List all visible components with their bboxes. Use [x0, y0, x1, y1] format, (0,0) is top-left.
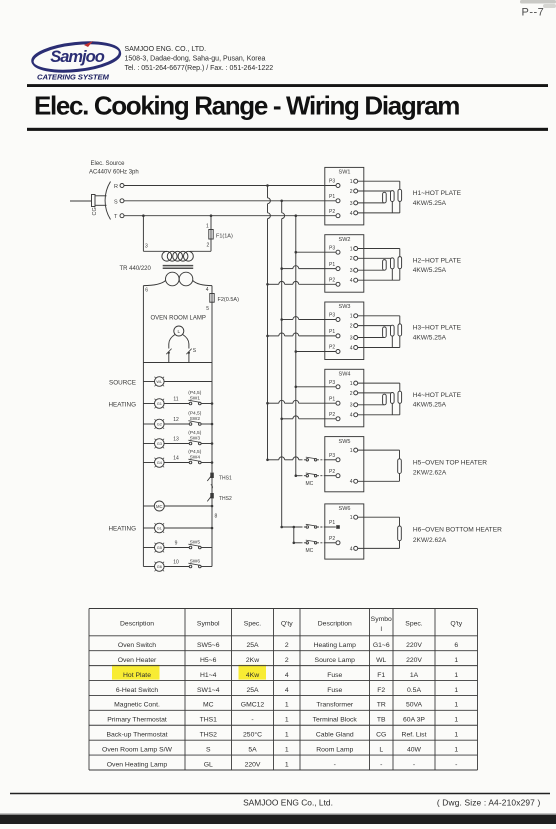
oven top heater H5: [358, 449, 400, 451]
svg-text:P2: P2: [329, 469, 335, 475]
svg-text:1: 1: [454, 687, 458, 694]
svg-text:THS2: THS2: [219, 496, 232, 502]
feed SW5 P2 with MC contact: [295, 474, 298, 477]
wire T: [124, 215, 336, 217]
svg-text:1: 1: [454, 672, 458, 679]
lamp G4 row: [143, 462, 154, 464]
svg-text:Ref. List: Ref. List: [402, 732, 427, 739]
svg-text:-: -: [455, 761, 457, 768]
svg-text:F2(0.5A): F2(0.5A): [218, 297, 240, 303]
svg-text:CG: CG: [92, 207, 98, 215]
svg-text:CG: CG: [376, 732, 386, 739]
svg-text:2KW/2.62A: 2KW/2.62A: [413, 470, 447, 477]
thermostat THS1: [210, 473, 214, 478]
svg-text:G1: G1: [157, 401, 162, 406]
svg-text:1A: 1A: [410, 672, 419, 679]
svg-text:3: 3: [145, 244, 148, 250]
svg-text:GL: GL: [157, 526, 163, 531]
svg-text:4: 4: [350, 413, 353, 419]
svg-text:Q'ty: Q'ty: [281, 621, 293, 628]
svg-text:3: 3: [350, 403, 353, 409]
svg-text:SW2: SW2: [339, 237, 351, 243]
svg-text:G2: G2: [157, 422, 162, 427]
svg-text:P3: P3: [329, 245, 335, 251]
svg-text:HEATING: HEATING: [108, 401, 136, 408]
svg-text:R: R: [114, 184, 118, 190]
table grid: [88, 609, 90, 770]
cable gland CG: [70, 200, 92, 202]
svg-text:Fuse: Fuse: [327, 687, 342, 694]
feed SW3 P1: [266, 335, 269, 338]
feed SW2 P1: [280, 267, 283, 270]
feed SW4 P1: [266, 402, 269, 405]
svg-text:G4: G4: [157, 460, 163, 465]
svg-text:SAMJOO ENG. CO., LTD.: SAMJOO ENG. CO., LTD.: [125, 46, 207, 53]
wire R: [124, 185, 336, 187]
6-heat switch SW2: [325, 235, 364, 293]
svg-text:4: 4: [206, 287, 209, 293]
svg-text:SW1: SW1: [339, 170, 351, 176]
table highlight Hot Plate: [112, 665, 160, 680]
svg-text:THS1: THS1: [200, 717, 218, 724]
svg-text:3: 3: [350, 268, 353, 274]
svg-text:Description: Description: [120, 621, 154, 628]
svg-text:SW5~6: SW5~6: [197, 642, 220, 649]
svg-text:G3: G3: [157, 441, 162, 446]
svg-text:SW4: SW4: [339, 372, 351, 378]
lamp GL row: [143, 527, 154, 529]
svg-text:1: 1: [350, 515, 353, 521]
heater H2 element C: [398, 257, 402, 269]
svg-text:Oven Room Lamp S/W: Oven Room Lamp S/W: [102, 746, 172, 753]
svg-text:MC: MC: [306, 481, 314, 487]
svg-text:13: 13: [173, 436, 179, 442]
svg-text:OVEN ROOM LAMP: OVEN ROOM LAMP: [151, 316, 206, 322]
svg-text:Symbo: Symbo: [371, 616, 392, 623]
svg-text:Description: Description: [318, 621, 352, 628]
svg-text:SW1~4: SW1~4: [197, 687, 220, 694]
lamp bottom wire: [143, 362, 212, 364]
heater H4 element B: [391, 393, 395, 404]
svg-text:1: 1: [454, 732, 458, 739]
svg-text:MC: MC: [306, 548, 314, 554]
feed SW6 P2 with MC contact: [293, 542, 296, 545]
hot plate heater H3 wires: [358, 315, 400, 317]
svg-text:6-Heat Switch: 6-Heat Switch: [116, 687, 159, 694]
wire T to F1: [210, 214, 213, 217]
svg-text:H5~6: H5~6: [200, 657, 217, 664]
hot plate heater H4 wires: [358, 382, 400, 384]
svg-text:P3: P3: [329, 179, 335, 185]
svg-text:1: 1: [285, 732, 289, 739]
svg-text:4KW/5.25A: 4KW/5.25A: [413, 267, 447, 274]
svg-text:250°C: 250°C: [243, 731, 262, 739]
svg-text:11: 11: [173, 396, 178, 402]
svg-text:P3: P3: [329, 313, 335, 319]
heater H3 element C: [398, 324, 402, 336]
logo red accent: [84, 41, 93, 47]
svg-text:5: 5: [206, 306, 209, 312]
svg-text:MC: MC: [203, 702, 214, 709]
svg-text:(P4,5): (P4,5): [188, 449, 201, 455]
wire F1 to primary: [210, 239, 212, 251]
heater H1 element A: [383, 192, 387, 203]
svg-text:Oven Heater: Oven Heater: [118, 657, 157, 664]
svg-text:SAMJOO ENG Co., Ltd.: SAMJOO ENG Co., Ltd.: [243, 798, 333, 808]
heater H4 element C: [398, 391, 402, 403]
svg-text:P3: P3: [329, 453, 335, 459]
svg-text:(P4,5): (P4,5): [188, 430, 201, 436]
svg-text:-: -: [251, 717, 253, 724]
bus C (T phase) vertical: [295, 214, 298, 217]
svg-text:25A: 25A: [246, 642, 259, 649]
svg-text:WL: WL: [376, 657, 386, 664]
svg-text:1: 1: [350, 448, 353, 454]
logo ellipse: [31, 38, 121, 74]
svg-text:10: 10: [173, 559, 179, 565]
svg-text:2: 2: [285, 657, 289, 664]
svg-text:P2: P2: [329, 278, 335, 284]
bus C2 stub vertical: [293, 526, 296, 529]
svg-text:-: -: [334, 761, 336, 768]
feed SW4 P3: [295, 386, 298, 389]
svg-text:Fuse: Fuse: [327, 672, 342, 679]
svg-text:40W: 40W: [407, 746, 422, 753]
svg-text:Cable Gland: Cable Gland: [316, 732, 354, 739]
room lamp L: [174, 326, 184, 336]
svg-text:F1(1A): F1(1A): [216, 234, 233, 240]
svg-text:220V: 220V: [245, 761, 261, 768]
svg-text:G6: G6: [157, 564, 162, 569]
heater H4 element A: [383, 394, 387, 405]
svg-text:( Dwg. Size : A4-210x297 ): ( Dwg. Size : A4-210x297 ): [437, 798, 541, 808]
svg-text:4KW/5.25A: 4KW/5.25A: [413, 200, 447, 207]
wire S: [124, 200, 336, 202]
svg-text:Back-up Thermostat: Back-up Thermostat: [106, 732, 167, 739]
oven switch SW5: [325, 437, 364, 492]
lamp switch S right: [186, 349, 191, 355]
svg-text:P2: P2: [329, 412, 335, 418]
hot plate heater H1 wires: [358, 180, 400, 182]
svg-text:1: 1: [350, 179, 353, 185]
svg-text:4: 4: [350, 546, 353, 552]
svg-text:1: 1: [454, 657, 458, 664]
svg-text:Elec. Cooking Range - Wiring D: Elec. Cooking Range - Wiring Diagram: [34, 91, 459, 121]
svg-text:P1: P1: [329, 262, 335, 268]
svg-text:P2: P2: [329, 209, 335, 215]
svg-text:5A: 5A: [248, 746, 257, 753]
svg-text:4: 4: [350, 211, 353, 217]
MC coil row: [143, 505, 154, 507]
svg-text:Oven Switch: Oven Switch: [118, 642, 156, 649]
heater H1 element B: [391, 191, 395, 202]
svg-text:2KW/2.62A: 2KW/2.62A: [413, 537, 447, 544]
svg-text:H2~HOT PLATE: H2~HOT PLATE: [413, 257, 462, 264]
feed SW4 P2: [280, 418, 283, 421]
svg-text:25A: 25A: [246, 687, 259, 694]
svg-text:Magnetic Cont.: Magnetic Cont.: [114, 702, 160, 709]
svg-text:1: 1: [454, 717, 458, 724]
svg-text:220V: 220V: [406, 642, 422, 649]
svg-text:2: 2: [350, 189, 353, 195]
svg-text:2Kw: 2Kw: [246, 657, 259, 664]
svg-text:1: 1: [454, 702, 458, 709]
svg-text:Spec.: Spec.: [405, 621, 422, 628]
svg-text:4KW/5.25A: 4KW/5.25A: [413, 334, 447, 341]
svg-text:Terminal Block: Terminal Block: [313, 717, 358, 724]
heater H3 element A: [383, 327, 387, 338]
svg-text:0.5A: 0.5A: [407, 687, 421, 694]
heater H3 element B: [391, 325, 395, 336]
svg-text:P1: P1: [329, 396, 335, 402]
right rail lower: [211, 478, 213, 493]
svg-text:HEATING: HEATING: [108, 525, 136, 532]
svg-text:G1~6: G1~6: [373, 642, 390, 649]
svg-text:6: 6: [145, 288, 148, 294]
svg-text:4: 4: [350, 278, 353, 284]
fuse F1: [209, 230, 213, 240]
svg-text:GL: GL: [204, 761, 213, 768]
svg-text:4: 4: [350, 479, 353, 485]
svg-text:Samjoo: Samjoo: [50, 48, 105, 66]
svg-text:WL: WL: [156, 379, 163, 384]
svg-text:1: 1: [206, 224, 209, 230]
svg-text:F1: F1: [377, 672, 385, 679]
svg-text:H1~4: H1~4: [200, 672, 217, 679]
fuse F2: [210, 294, 214, 303]
svg-text:P3: P3: [329, 380, 335, 386]
svg-text:(P4,5): (P4,5): [188, 390, 201, 396]
svg-text:Elec. Source: Elec. Source: [91, 161, 126, 167]
svg-text:60A 3P: 60A 3P: [403, 717, 425, 724]
lamp G2 row: [143, 423, 154, 425]
svg-text:Oven Heating Lamp: Oven Heating Lamp: [107, 761, 168, 768]
svg-text:Tel. : 051-264-6677(Rep.) / Fa: Tel. : 051-264-6677(Rep.) / Fax. : 051-2…: [125, 65, 274, 72]
svg-text:4: 4: [285, 672, 289, 679]
svg-text:AC440V 60Hz 3ph: AC440V 60Hz 3ph: [89, 170, 139, 176]
6-heat switch SW1: [325, 167, 364, 225]
svg-text:TR 440/220: TR 440/220: [120, 266, 152, 272]
svg-text:3: 3: [350, 201, 353, 207]
svg-text:MC: MC: [156, 504, 163, 509]
svg-text:1508-3, Dadae-dong, Saha-gu, P: 1508-3, Dadae-dong, Saha-gu, Pusan, Kore…: [125, 56, 266, 63]
svg-text:Source Lamp: Source Lamp: [315, 657, 356, 664]
svg-text:L: L: [379, 746, 383, 753]
svg-text:Q'ty: Q'ty: [450, 621, 462, 628]
svg-text:-: -: [380, 761, 382, 768]
svg-text:1: 1: [350, 314, 353, 320]
svg-text:4Kw: 4Kw: [246, 672, 259, 679]
hot plate heater H2 wires: [358, 248, 400, 250]
lamp G5 row: [143, 547, 154, 549]
svg-text:3: 3: [350, 335, 353, 341]
wire T to primary: [142, 214, 145, 217]
right rail upper: [211, 302, 213, 472]
svg-text:1: 1: [350, 246, 353, 252]
svg-text:4: 4: [350, 345, 353, 351]
svg-text:H1~HOT PLATE: H1~HOT PLATE: [413, 190, 462, 197]
lamp G6 row: [143, 566, 154, 568]
bottom scan edge band: [0, 815, 556, 825]
svg-text:Room Lamp: Room Lamp: [316, 746, 353, 753]
oven bottom heater H6: [358, 516, 400, 518]
svg-text:2: 2: [207, 243, 210, 249]
oven switch SW6: [325, 504, 364, 559]
wire secondary to F2: [211, 286, 213, 294]
heater H2 element B: [391, 258, 395, 269]
svg-text:Heating Lamp: Heating Lamp: [314, 642, 357, 649]
6-heat switch SW3: [325, 302, 364, 360]
svg-text:P2: P2: [329, 345, 335, 351]
svg-text:H6~OVEN BOTTOM HEATER: H6~OVEN BOTTOM HEATER: [413, 527, 502, 534]
svg-text:4: 4: [285, 687, 289, 694]
svg-text:1: 1: [350, 381, 353, 387]
svg-text:8: 8: [215, 514, 218, 520]
bus B (S phase) vertical: [280, 200, 283, 203]
svg-text:P1: P1: [329, 520, 335, 526]
svg-text:6: 6: [454, 642, 458, 649]
footer rule: [10, 793, 550, 795]
svg-text:SW6: SW6: [339, 506, 351, 512]
svg-text:SW3: SW3: [339, 304, 351, 310]
svg-text:THS2: THS2: [200, 732, 218, 739]
svg-text:50VA: 50VA: [406, 702, 423, 709]
top rule bar: [27, 84, 548, 87]
svg-text:Symbol: Symbol: [197, 621, 220, 628]
svg-text:P1: P1: [329, 194, 335, 200]
svg-text:1: 1: [285, 746, 289, 753]
svg-text:2: 2: [350, 256, 353, 262]
svg-text:P2: P2: [329, 536, 335, 542]
svg-text:1: 1: [285, 761, 289, 768]
svg-text:2: 2: [285, 642, 289, 649]
thermostat THS2: [210, 493, 214, 498]
svg-text:1: 1: [285, 717, 289, 724]
svg-text:220V: 220V: [406, 657, 422, 664]
svg-text:SW5: SW5: [339, 439, 351, 445]
6-heat switch SW4: [325, 369, 364, 427]
svg-text:-: -: [413, 761, 415, 768]
svg-text:THS1: THS1: [219, 476, 232, 482]
svg-text:2: 2: [350, 324, 353, 330]
svg-text:1: 1: [454, 746, 458, 753]
transformer secondary coil: [166, 272, 180, 286]
svg-text:(P4,5): (P4,5): [188, 410, 201, 416]
svg-text:G5: G5: [157, 545, 162, 550]
svg-text:S: S: [206, 746, 211, 753]
feed SW3 P2: [295, 350, 298, 353]
svg-text:4KW/5.25A: 4KW/5.25A: [413, 402, 447, 409]
svg-text:SOURCE: SOURCE: [109, 379, 136, 386]
svg-text:12: 12: [173, 417, 179, 423]
transformer core: [163, 265, 194, 267]
svg-text:H4~HOT PLATE: H4~HOT PLATE: [413, 392, 462, 399]
svg-text:GMC12: GMC12: [241, 702, 265, 709]
svg-text:TR: TR: [377, 702, 386, 709]
svg-text:TB: TB: [377, 717, 386, 724]
svg-text:Transformer: Transformer: [316, 702, 353, 709]
kink between thermostats: [211, 485, 213, 489]
svg-text:Primary Thermostat: Primary Thermostat: [107, 717, 167, 724]
svg-text:P1: P1: [329, 329, 335, 335]
svg-text:H5~OVEN TOP HEATER: H5~OVEN TOP HEATER: [413, 460, 487, 467]
lamp G3 row: [143, 443, 154, 445]
svg-text:9: 9: [175, 540, 178, 546]
lamp switch S left: [166, 349, 171, 355]
top edge scan smudge: [520, 0, 556, 4]
svg-text:H3~HOT PLATE: H3~HOT PLATE: [413, 325, 462, 332]
bus A (R phase) vertical: [266, 184, 269, 187]
svg-text:L: L: [178, 329, 181, 334]
lamp WL row: [143, 381, 154, 383]
svg-text:CATERING SYSTEM: CATERING SYSTEM: [37, 72, 110, 81]
feed SW2 P3: [295, 251, 298, 254]
svg-text:P--7: P--7: [522, 7, 545, 19]
heater H1 element C: [398, 189, 402, 201]
heater H2 element A: [383, 260, 387, 271]
title bottom rule bar: [27, 128, 548, 131]
svg-text:F2: F2: [377, 687, 385, 694]
svg-text:1: 1: [285, 702, 289, 709]
table highlight 4Kw: [239, 665, 267, 680]
svg-text:Hot Plate: Hot Plate: [123, 672, 151, 679]
transformer primary coil: [162, 251, 172, 261]
svg-text:2: 2: [350, 391, 353, 397]
lamp G1 row: [143, 403, 154, 405]
svg-text:S: S: [114, 199, 118, 205]
svg-text:14: 14: [173, 455, 179, 461]
feed SW6 P1 with MC contact: [280, 526, 283, 529]
feed SW2 P2: [266, 283, 269, 286]
feed SW5 P3 with MC contact: [266, 459, 269, 462]
feed SW3 P3: [280, 318, 283, 321]
svg-text:Spec.: Spec.: [244, 621, 261, 628]
left rail: [142, 286, 144, 567]
